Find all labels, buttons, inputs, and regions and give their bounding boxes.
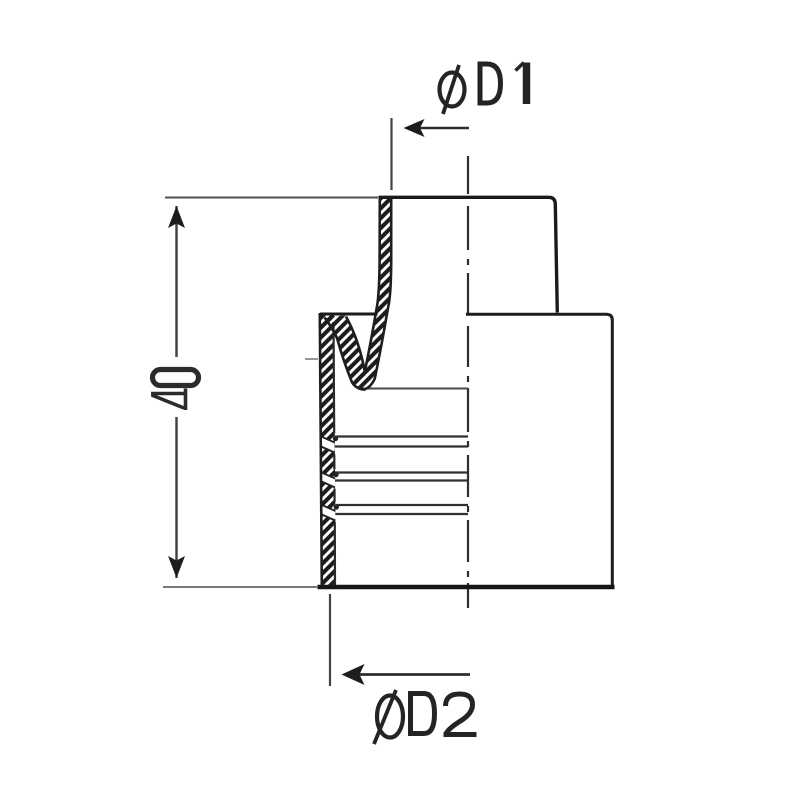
body left wall section (hatched) xyxy=(320,314,336,586)
dim phiD2 text: glyph 2 xyxy=(444,694,477,735)
dim phiD2 arrow shaft xyxy=(355,673,470,676)
dim phiD2 text: phi symbol xyxy=(374,690,403,744)
dim 40 dimension line upper segment xyxy=(175,206,177,357)
dim 40 dimension line lower segment xyxy=(175,417,177,578)
center line xyxy=(467,156,469,608)
neck left wall outer edge into V gap right side xyxy=(365,199,380,372)
dim phiD2 arrow head xyxy=(342,664,365,685)
dim phiD1 text: glyph 1 xyxy=(523,63,531,105)
rib 3 lines xyxy=(335,504,468,506)
rib 2 notch xyxy=(322,472,339,488)
dim 40 text: glyph 4 (rotated) xyxy=(151,389,187,411)
dim 40 bottom extension line xyxy=(163,586,318,588)
dim 40 top extension line xyxy=(165,197,378,199)
dim phiD2 extension line xyxy=(329,594,331,686)
dim phiD1 arrow shaft xyxy=(415,127,469,129)
rib 1 lines xyxy=(335,435,469,437)
dim phiD1 extension line xyxy=(390,118,392,190)
dim phiD1 arrow head xyxy=(404,119,425,137)
V gap left side edge xyxy=(346,317,365,372)
dim 40 text: glyph 0 (rotated) xyxy=(153,370,199,386)
dim phiD2 text: glyph D xyxy=(411,694,435,734)
dim 40 arrow down xyxy=(168,556,185,578)
rib 1 notch xyxy=(321,436,338,453)
neck top edge and neck right wall xyxy=(379,197,558,312)
body left wall inner edge (segments between rib notches) xyxy=(334,322,336,585)
dim 40 arrow up xyxy=(168,206,185,228)
rib 3 notch xyxy=(322,504,339,520)
neck left wall inner edge into fold outer edge xyxy=(325,199,392,390)
body left wall outer edge xyxy=(320,313,322,586)
rib 2 lines xyxy=(335,471,468,473)
dim phiD1 text: glyph D xyxy=(480,64,501,103)
dim phiD1 text: phi symbol xyxy=(440,65,465,114)
neck left wall + V fold section (hatched) xyxy=(325,198,392,390)
small tick on left wall xyxy=(305,358,318,360)
flange top edge xyxy=(320,313,378,316)
right step edge and body right wall xyxy=(466,314,612,585)
body bottom edge xyxy=(318,585,615,589)
groove bottom inner line xyxy=(362,388,468,390)
